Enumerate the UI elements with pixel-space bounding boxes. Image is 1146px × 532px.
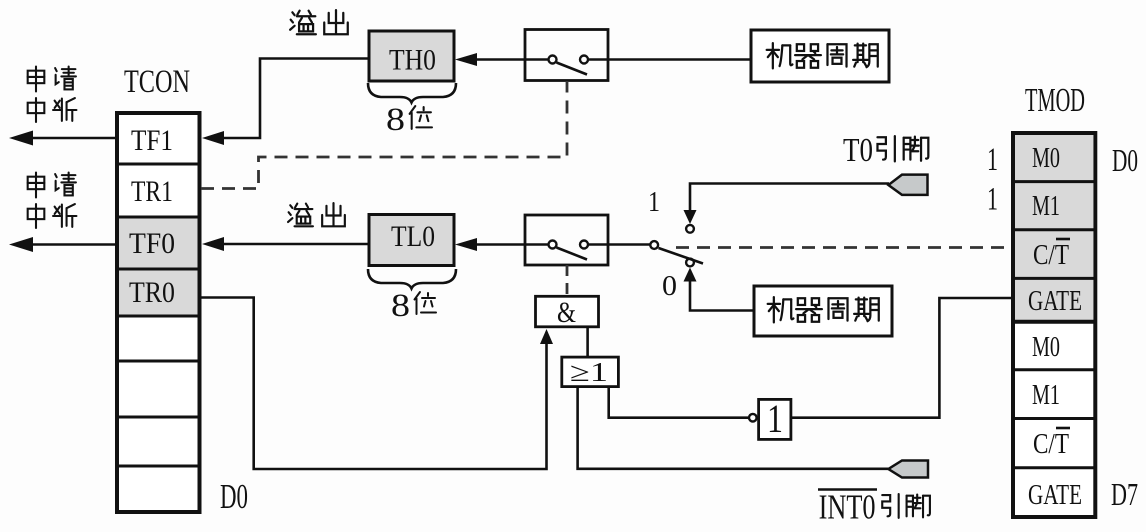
wire TR0 to AND input	[201, 298, 547, 470]
tag INT0 pin	[888, 461, 928, 478]
svg-text:M1: M1	[1032, 380, 1060, 411]
svg-text:TL0: TL0	[391, 220, 435, 253]
svg-text:TCON: TCON	[124, 64, 190, 100]
box 机器周期 (top)	[751, 30, 889, 82]
svg-text:T0: T0	[843, 132, 873, 169]
svg-text:C/T: C/T	[1033, 240, 1069, 271]
svg-text:TF0: TF0	[129, 227, 175, 260]
gate AND (&)	[536, 296, 599, 327]
selector common contact	[650, 241, 658, 249]
gate OR (>=1)	[562, 357, 619, 387]
selector contact 1	[686, 225, 694, 233]
svg-text:D0: D0	[220, 477, 248, 516]
svg-text:1: 1	[987, 182, 998, 218]
svg-text:M0: M0	[1032, 143, 1060, 174]
svg-text:D7: D7	[1111, 476, 1138, 512]
wire OR input from NOT	[609, 387, 749, 418]
brace under TH0	[368, 83, 456, 103]
dashed TR1 to switch S1	[201, 81, 567, 189]
svg-text:TR0: TR0	[129, 276, 175, 309]
brace under TL0	[368, 269, 456, 289]
wire OR to AND	[586, 327, 589, 357]
wire TH0 overflow to TF1	[207, 59, 369, 139]
svg-text:TR1: TR1	[131, 175, 173, 208]
dashed C/T to selector	[676, 246, 1012, 249]
gate NOT (1)	[749, 414, 757, 422]
svg-text:GATE: GATE	[1028, 480, 1082, 511]
label 溢出 (top)	[290, 11, 316, 35]
wire TL0 overflow to TF0	[207, 243, 369, 246]
svg-text:INT0: INT0	[819, 488, 876, 527]
svg-text:≥1: ≥1	[570, 357, 608, 387]
svg-text:C/T: C/T	[1033, 429, 1069, 460]
svg-text:1: 1	[767, 396, 783, 441]
svg-text:0: 0	[662, 271, 677, 302]
selector contact 0	[686, 259, 694, 267]
wire switch S2 to TL0	[460, 243, 525, 246]
svg-text:TMOD: TMOD	[1025, 82, 1085, 119]
label 申请中断 (top)	[28, 67, 45, 92]
svg-text:GATE: GATE	[1028, 286, 1082, 317]
wire switch S1 to TH0	[460, 58, 525, 61]
svg-text:TH0: TH0	[389, 44, 436, 77]
svg-text:1: 1	[987, 142, 998, 178]
svg-text:8: 8	[391, 288, 410, 324]
register TMOD body	[1013, 133, 1095, 517]
svg-text:8: 8	[386, 102, 405, 138]
svg-text:1: 1	[648, 187, 660, 218]
register TL0	[369, 215, 454, 266]
wire S2 to selector common	[608, 243, 650, 246]
label 申请中断 (bottom)	[28, 173, 45, 198]
svg-text:&: &	[557, 296, 576, 329]
wire interrupt request 2	[30, 243, 116, 246]
wire machine cycle to S1	[608, 58, 751, 61]
switch S1 box	[525, 30, 608, 81]
tag T0 pin	[888, 175, 927, 195]
wire T0 pin to contact 1	[690, 184, 889, 212]
wire GATE to NOT	[791, 298, 1011, 418]
dashed AND output to S2	[566, 265, 569, 296]
wire INT0 to OR	[578, 387, 889, 469]
switch S2 box	[525, 215, 608, 265]
svg-text:M0: M0	[1032, 332, 1060, 363]
box 机器周期 (middle)	[754, 286, 892, 336]
wire machine cycle 2 to contact 0	[690, 280, 754, 311]
wire interrupt request 1	[30, 137, 116, 140]
selector lever	[659, 248, 704, 264]
label 溢出 (middle)	[288, 204, 313, 227]
svg-text:D0: D0	[1112, 142, 1138, 178]
register TH0	[369, 31, 454, 81]
svg-text:M1: M1	[1032, 191, 1060, 222]
svg-text:TF1: TF1	[131, 124, 173, 157]
register TCON body	[117, 113, 200, 512]
